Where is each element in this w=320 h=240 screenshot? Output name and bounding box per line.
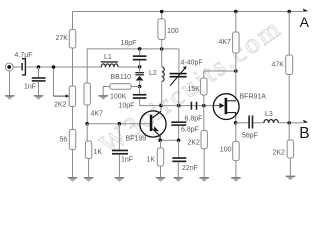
ground — [84, 177, 94, 181]
wire 56pF to L3 — [253, 122, 264, 124]
wire connector to C1 — [13, 66, 21, 68]
output wire y122.8 — [236, 122, 249, 124]
wire 10pF leads — [140, 87, 161, 106]
wire 100 to ground — [235, 161, 237, 178]
resistor 1K — [85, 141, 91, 159]
resistor 100 top — [158, 19, 165, 40]
node dot — [138, 85, 142, 89]
wire gate node to 2K2 — [203, 106, 205, 131]
svg-text:BB110: BB110 — [111, 74, 132, 81]
capacitor 22nF — [172, 157, 186, 159]
wire base node down to 1nF — [118, 124, 120, 150]
svg-text:15K: 15K — [188, 86, 201, 93]
svg-text:100: 100 — [220, 147, 232, 154]
capacitor C1 4.7uF — [21, 63, 23, 71]
svg-text:6.8pF: 6.8pF — [181, 127, 199, 134]
svg-text:L1: L1 — [104, 54, 112, 61]
node dot — [234, 121, 238, 125]
node dot — [52, 65, 56, 69]
wire 15K top to collector rail — [204, 71, 236, 78]
capacitor 18pF — [133, 55, 147, 57]
capacitor 1nF emitter bypass — [112, 150, 128, 152]
wire rail to 100 — [161, 12, 163, 20]
capacitor 6.8pF shunt — [171, 121, 186, 123]
node dot — [138, 47, 142, 51]
ground — [156, 177, 166, 181]
ground — [199, 177, 209, 181]
ground — [98, 95, 108, 99]
node dot — [85, 122, 89, 126]
resistor 2K2 output — [287, 140, 293, 158]
svg-text:A: A — [300, 14, 310, 30]
wire 100 to L2 — [161, 40, 163, 68]
ground — [34, 95, 44, 99]
wire emitter node to 100 — [235, 123, 237, 142]
resistor 4K7 base bias — [84, 83, 90, 105]
node dot — [160, 10, 164, 14]
wire L1 to node — [117, 66, 139, 68]
capacitor 6.8pF series — [191, 102, 193, 110]
arrow B terminal — [303, 120, 308, 123]
wire 100K right lead — [131, 86, 140, 88]
top supply rail wire — [73, 11, 304, 13]
wire rail cap — [139, 49, 141, 67]
svg-text:L3: L3 — [265, 111, 273, 118]
svg-text:1nF: 1nF — [24, 84, 36, 91]
resistor 100 emitter — [233, 141, 240, 160]
ground — [231, 177, 241, 181]
ground — [286, 176, 296, 180]
inductor L1 — [101, 64, 118, 67]
wire 56 to ground — [72, 150, 74, 178]
svg-text:4-40pF: 4-40pF — [181, 59, 203, 66]
potentiometer 2K2 body — [69, 86, 75, 107]
ground — [174, 177, 184, 181]
svg-text:100: 100 — [167, 28, 179, 35]
wire pot to 56 — [72, 107, 74, 130]
svg-text:1K: 1K — [94, 149, 103, 156]
inductor L2 — [162, 67, 165, 81]
node dot — [158, 139, 162, 143]
node dot — [287, 121, 291, 125]
svg-text:2K2: 2K2 — [273, 149, 286, 156]
svg-text:B: B — [299, 125, 309, 142]
ground — [115, 177, 125, 181]
wire trimmer node down through 6.8pF shunt — [178, 106, 180, 141]
wire emitter down — [235, 116, 237, 123]
wire rail to 4K7 — [235, 12, 237, 33]
wire trimmer leads — [178, 49, 180, 106]
node dot — [138, 65, 142, 69]
node dot — [160, 47, 164, 51]
wire 27K to pot top (crosses signal wire) — [72, 48, 74, 86]
resistor 56 — [69, 130, 76, 150]
node dot — [177, 104, 181, 108]
wire node to C2 — [38, 67, 40, 77]
node dot — [37, 65, 41, 69]
node dot — [177, 139, 181, 143]
wire 15K bottom — [203, 95, 205, 106]
wire 2K2 to ground — [203, 149, 205, 178]
wire output node to 2K2 — [288, 123, 290, 140]
wire 100K left lead to ground — [103, 87, 110, 96]
wire C1 to L1 — [26, 66, 101, 68]
ground — [5, 95, 15, 99]
input connector J1 — [5, 63, 13, 71]
trimmer 4-40pF — [170, 73, 187, 75]
wire C2 to ground — [38, 82, 40, 96]
svg-text:56: 56 — [60, 137, 68, 144]
node dot — [287, 10, 291, 14]
capacitor C2 1nF — [32, 77, 46, 79]
watermark — [94, 11, 288, 160]
svg-text:1K: 1K — [147, 156, 156, 163]
wire L2 to node — [161, 82, 163, 106]
svg-text:BF199: BF199 — [126, 136, 147, 143]
resistor 4K7 top right — [233, 32, 240, 53]
wire 4K7 to base node — [86, 105, 88, 124]
svg-text:BFR91A: BFR91A — [240, 93, 267, 100]
resistor 2K2 fet gate — [201, 130, 207, 148]
transistor BFR91A — [213, 94, 239, 120]
wire 4K7 to collector node — [235, 53, 237, 101]
collector line y105.6 — [161, 105, 213, 107]
svg-text:6.8pF: 6.8pF — [185, 115, 203, 122]
svg-text:L2: L2 — [149, 70, 157, 77]
capacitor 56pF — [248, 116, 250, 129]
wire BF199 collector up — [160, 106, 162, 112]
wire varicap leads — [139, 67, 141, 87]
svg-text:27K: 27K — [56, 35, 69, 42]
svg-text:100K: 100K — [110, 93, 127, 100]
svg-text:47K: 47K — [272, 62, 285, 69]
ground — [68, 177, 78, 181]
wire 4K7 down to 1K — [86, 124, 88, 141]
wire L3 to node and arrow B — [278, 122, 303, 124]
node dot — [202, 104, 206, 108]
resistor 27K — [69, 30, 76, 49]
svg-text:56pF: 56pF — [242, 132, 258, 139]
svg-text:2K2: 2K2 — [54, 101, 67, 108]
node dot — [234, 69, 238, 73]
resistor 47K — [286, 55, 293, 75]
resistor 1K emitter — [157, 148, 163, 166]
node dot — [118, 122, 122, 126]
capacitor 10pF — [133, 94, 147, 96]
wire 1K to ground — [88, 159, 90, 178]
emitter wire BF199 — [160, 139, 178, 141]
svg-text:2K2: 2K2 — [188, 139, 201, 146]
wire 1K to ground — [160, 166, 162, 178]
svg-text:4K7: 4K7 — [219, 39, 232, 46]
inductor L3 — [264, 120, 278, 123]
wire 1nF to ground — [118, 155, 120, 178]
resistor 15K — [201, 78, 207, 95]
wire rail to 47K — [288, 12, 290, 56]
wire emitter to 1K — [160, 140, 162, 148]
potentiometer wiper arrow — [53, 67, 55, 96]
wire 22nF to ground — [177, 162, 179, 177]
transistor BF199 — [140, 111, 166, 137]
svg-text:4K7: 4K7 — [91, 111, 104, 118]
inductor L1 core — [101, 61, 118, 63]
wire connector to ground — [9, 71, 11, 96]
node dot — [159, 104, 163, 108]
arrow A terminal — [303, 9, 308, 12]
wire 4K7 top corner — [87, 49, 179, 83]
node dot — [234, 10, 238, 14]
resistor 100K horizontal — [110, 84, 131, 90]
svg-text:18pF: 18pF — [121, 40, 137, 47]
svg-text:22nF: 22nF — [182, 165, 198, 172]
wire 2K2 to ground — [289, 158, 291, 176]
wire 47K to output node — [288, 75, 290, 123]
varicap BB110 — [135, 72, 144, 73]
wire node down to 22nF — [178, 140, 180, 157]
wire x72.5 rail to 27K — [72, 12, 74, 30]
svg-text:10pF: 10pF — [119, 103, 135, 110]
svg-text:1nF: 1nF — [121, 156, 133, 163]
svg-text:4.7µF: 4.7µF — [15, 52, 33, 59]
base wire to BF199 — [87, 123, 150, 125]
